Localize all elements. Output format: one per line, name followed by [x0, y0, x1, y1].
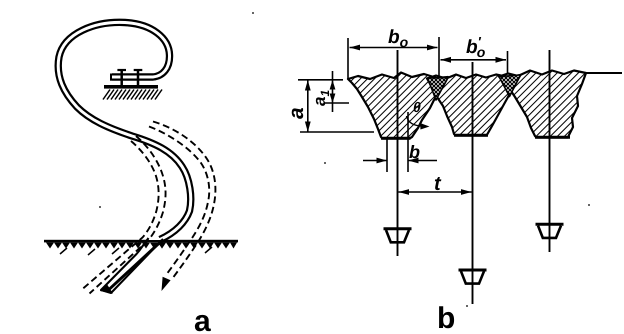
mound 2	[427, 75, 521, 136]
bolt 2	[134, 70, 143, 87]
S-tine solid strip (double line)	[58, 22, 191, 239]
dashed tine deflected outer (right) branch	[149, 122, 215, 280]
dimension b'_o	[441, 51, 508, 73]
bolt 1	[117, 70, 126, 87]
dimension t	[399, 191, 472, 193]
tine point symbol 2	[459, 270, 487, 284]
soil line redrawn across blade	[138, 240, 172, 242]
overlap triangle 1	[428, 78, 449, 101]
mound 3	[499, 71, 586, 138]
mound1 bottom emphasis	[381, 137, 411, 140]
dimension a	[298, 80, 374, 132]
shank line 3	[549, 50, 551, 252]
sparse ticks under zigzag	[60, 247, 212, 255]
svg-text:a: a	[285, 107, 308, 119]
solid share blade	[101, 236, 163, 294]
shank line 2	[472, 62, 474, 304]
tine point symbol 3	[536, 224, 564, 238]
dashed tine deflected inner (left) branch	[83, 136, 166, 294]
svg-text:b′o: b′o	[466, 34, 486, 60]
motion arrow on dashed branch	[162, 277, 171, 291]
scan specks	[99, 12, 590, 307]
shank line 1	[397, 50, 399, 256]
mound 1	[348, 73, 448, 139]
frame hatch under bracket	[103, 90, 162, 100]
dimension b (bottom width)	[363, 112, 437, 172]
dimension b_o	[348, 37, 439, 79]
frame bar	[104, 85, 158, 89]
strip clamp end cap	[110, 74, 112, 81]
svg-text:θ: θ	[413, 99, 421, 115]
overlap triangle 2	[499, 75, 521, 97]
dimension a1	[324, 71, 349, 112]
svg-text:b: b	[409, 142, 420, 162]
svg-text:a1: a1	[310, 90, 332, 106]
tine point symbol 1	[384, 229, 412, 243]
soil line left figure	[44, 240, 238, 243]
surface line right of mound3	[586, 72, 622, 74]
svg-text:a: a	[194, 305, 211, 334]
svg-text:b: b	[437, 302, 455, 334]
svg-text:bo: bo	[388, 27, 409, 50]
soil zigzag hatch	[46, 243, 237, 249]
